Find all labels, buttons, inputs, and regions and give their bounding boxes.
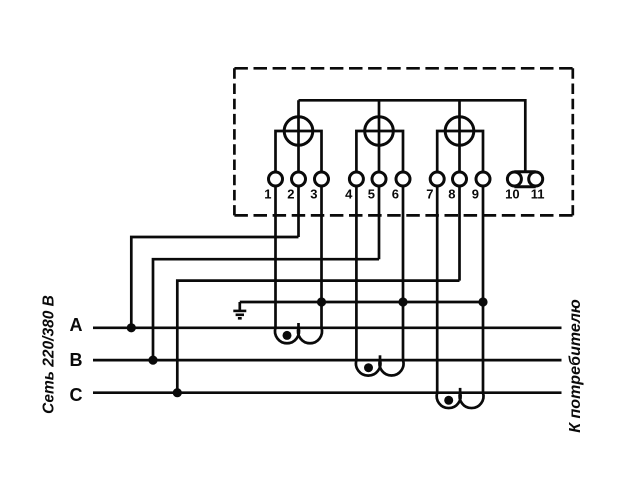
svg-text:10: 10 <box>505 187 519 202</box>
wire: terminal 7 down to CT TA3 secondary start <box>436 186 439 393</box>
current transformer TA1 secondary winding on phase A <box>275 323 322 343</box>
svg-text:7: 7 <box>426 187 433 202</box>
label: terminal number 9 <box>472 187 479 202</box>
label: terminal number 10 <box>505 187 519 202</box>
terminal 4 <box>349 172 363 186</box>
wire: terminal 8 down to phase C voltage tap <box>458 186 461 281</box>
polarity dot of TA1 <box>283 331 292 340</box>
svg-text:C: C <box>70 385 83 405</box>
svg-text:Сеть 220/380 В: Сеть 220/380 В <box>41 295 58 414</box>
junction dot on phase C at voltage tap <box>173 388 182 397</box>
svg-text:1: 1 <box>264 187 271 202</box>
terminal 11 <box>529 172 543 186</box>
measuring element 3 (circle) <box>445 117 474 146</box>
label: К потребителю (to consumer) <box>567 299 584 433</box>
meter enclosure (dashed box) <box>234 68 572 215</box>
svg-text:8: 8 <box>448 187 455 202</box>
phase line A <box>93 326 562 329</box>
polarity dot of TA2 <box>364 363 373 372</box>
wire: element 1 current coil (terminal 1 to terminal 3) <box>276 131 322 171</box>
label: terminal number 8 <box>448 187 455 202</box>
junction dot common wire / terminal 3 wire <box>317 297 326 306</box>
svg-text:3: 3 <box>310 187 317 202</box>
terminal 5 <box>372 172 386 186</box>
label: phase A <box>70 315 83 335</box>
current transformer TA2 secondary winding on phase B <box>356 355 404 375</box>
terminal 7 <box>430 172 444 186</box>
phase line C <box>93 391 562 394</box>
svg-text:4: 4 <box>345 187 353 202</box>
wire: terminal 1 down to CT TA1 secondary start <box>274 186 277 328</box>
wire: phase C voltage tap (phase C to terminal 8) <box>177 281 459 393</box>
wire: voltage-coil common bus to terminals 10-11 <box>299 100 526 172</box>
wire: terminal 5 down to phase B voltage tap <box>378 186 381 259</box>
terminal 1 <box>269 172 283 186</box>
wire: element 2 current coil (terminal 4 to terminal 6) <box>356 131 403 171</box>
label: terminal number 11 <box>531 187 545 202</box>
wire: phase A voltage tap (phase A to terminal 2) <box>131 237 298 328</box>
junction dot common wire / terminal 9 wire <box>478 297 487 306</box>
junction dot on phase A at voltage tap <box>127 323 136 332</box>
wire: element 2 voltage coil vertical (bus to terminal 5) <box>378 100 381 171</box>
junction dot common wire / terminal 6 wire <box>398 297 407 306</box>
label: terminal number 2 <box>287 187 294 202</box>
wire: grounded secondary common (terminals 3,6,9) <box>240 301 483 304</box>
terminal 10 <box>507 172 521 186</box>
wire: element 1 voltage coil vertical (bus to terminal 2) <box>297 100 300 171</box>
wire: terminal 3 down to CT TA1 secondary end <box>320 186 323 328</box>
terminal 8 <box>453 172 467 186</box>
measuring element 1 (circle) <box>284 117 313 146</box>
wire: element 3 voltage coil vertical (bus to terminal 8) <box>458 100 461 171</box>
wire: terminal 6 down to CT TA2 secondary end <box>402 186 405 360</box>
svg-text:5: 5 <box>368 187 375 202</box>
current transformer TA3 secondary winding on phase C <box>437 388 484 408</box>
junction dot on phase B at voltage tap <box>148 356 157 365</box>
terminal 2 <box>292 172 306 186</box>
label: Сеть 220/380 В (network side) <box>41 295 58 414</box>
wire: terminal 9 down to CT TA3 secondary end <box>482 186 485 393</box>
svg-text:11: 11 <box>531 187 545 202</box>
terminal 6 <box>396 172 410 186</box>
wire: phase B voltage tap (phase B to terminal 5) <box>153 259 379 360</box>
wire: terminal 2 down to phase A voltage tap <box>297 186 300 237</box>
svg-text:B: B <box>70 350 83 370</box>
wire: element 3 current coil (terminal 7 to terminal 9) <box>437 131 483 171</box>
label: terminal number 3 <box>310 187 317 202</box>
polarity dot of TA3 <box>444 396 453 405</box>
ground symbol <box>233 302 246 318</box>
label: terminal number 5 <box>368 187 375 202</box>
label: terminal number 4 <box>345 187 353 202</box>
svg-text:2: 2 <box>287 187 294 202</box>
terminal 3 <box>315 172 329 186</box>
svg-text:9: 9 <box>472 187 479 202</box>
label: terminal number 7 <box>426 187 433 202</box>
measuring element 2 (circle) <box>365 117 394 146</box>
wire: terminal 4 down to CT TA2 secondary start <box>355 186 358 360</box>
svg-text:6: 6 <box>392 187 399 202</box>
svg-text:A: A <box>70 315 83 335</box>
svg-text:К потребителю: К потребителю <box>567 299 584 433</box>
terminal 9 <box>476 172 490 186</box>
jumper link between terminals 10 and 11 <box>514 172 535 187</box>
label: phase B <box>70 350 83 370</box>
label: terminal number 1 <box>264 187 271 202</box>
phase line B <box>93 359 562 362</box>
label: phase C <box>70 385 83 405</box>
label: terminal number 6 <box>392 187 399 202</box>
